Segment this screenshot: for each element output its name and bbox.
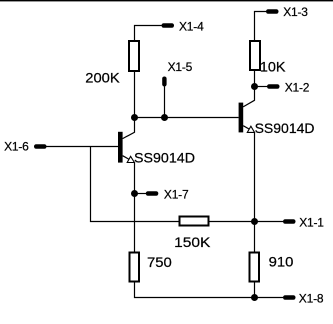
- wire to X1-2: [255, 86, 268, 88]
- svg-text:10K: 10K: [260, 58, 286, 74]
- wire X1-3 to 10K top: [255, 12, 267, 42]
- resistor 10K: [250, 41, 260, 70]
- transistor Q1 emitter arrow triangle: [127, 156, 134, 162]
- svg-text:SS9014D: SS9014D: [134, 149, 195, 165]
- transistor Q2 SS9014D base bar: [239, 103, 244, 133]
- svg-text:150K: 150K: [174, 234, 211, 250]
- wire X1-5 down to node: [164, 87, 166, 118]
- resistor 200K: [129, 41, 139, 71]
- svg-text:910: 910: [269, 254, 294, 270]
- transistor Q1 emitter diagonal: [123, 156, 135, 163]
- terminal X1-8: [283, 295, 296, 299]
- terminal X1-3: [266, 9, 279, 13]
- wire X1-4 to 200K top: [135, 26, 162, 42]
- junction node X1-5: [161, 114, 168, 121]
- wire 10K bottom to node: [254, 70, 256, 87]
- svg-text:750: 750: [147, 254, 172, 270]
- resistor 910: [250, 253, 260, 282]
- terminal X1-7: [146, 191, 159, 195]
- terminal X1-6: [34, 144, 47, 148]
- wire left bypass vertical: [91, 147, 180, 222]
- wire Q1 emitter down: [134, 162, 136, 193]
- terminal X1-4: [162, 23, 175, 27]
- transistor Q2 emitter diagonal: [243, 126, 254, 132]
- resistor 750: [130, 253, 140, 282]
- transistor Q2 collector: [243, 87, 254, 107]
- svg-text:SS9014D: SS9014D: [255, 120, 315, 136]
- svg-text:200K: 200K: [85, 70, 120, 86]
- terminal X1-5: [162, 77, 166, 87]
- transistor Q1 SS9014D base bar: [118, 132, 123, 163]
- terminal X1-1: [283, 219, 296, 223]
- junction node X1-7: [131, 190, 138, 197]
- svg-text:X1-3: X1-3: [283, 5, 308, 19]
- terminal X1-2: [267, 84, 280, 88]
- wire to X1-7: [135, 193, 147, 195]
- junction node X1-8: [251, 294, 258, 301]
- resistor 150K: [180, 217, 209, 226]
- svg-text:X1-2: X1-2: [285, 80, 310, 94]
- junction node 200K/Q1 collector: [131, 114, 138, 121]
- wire emitter net down to 750: [134, 194, 136, 253]
- wire 150K right to X1-1: [209, 221, 284, 223]
- wire 910 bottom to rail: [254, 282, 256, 298]
- wire base net to Q2: [135, 117, 239, 119]
- transistor Q1 collector: [123, 118, 135, 139]
- wire X1-6 base wire: [46, 146, 118, 148]
- wire 200K bottom to node: [134, 72, 136, 118]
- svg-text:X1-7: X1-7: [164, 188, 189, 202]
- junction node X1-2/Q2 collector: [251, 83, 258, 90]
- svg-text:X1-5: X1-5: [168, 60, 193, 74]
- svg-text:X1-6: X1-6: [4, 139, 29, 153]
- transistor Q2 emitter arrow triangle: [247, 126, 254, 132]
- svg-text:X1-8: X1-8: [299, 291, 324, 305]
- junction node X1-1/910/Q2 emitter: [251, 218, 258, 225]
- svg-text:X1-1: X1-1: [299, 216, 324, 230]
- wire Q2 emitter down to 910: [254, 132, 256, 252]
- svg-text:X1-4: X1-4: [179, 20, 204, 34]
- top border line: [0, 0, 333, 1]
- wire 750 bottom to rail: [135, 282, 284, 298]
